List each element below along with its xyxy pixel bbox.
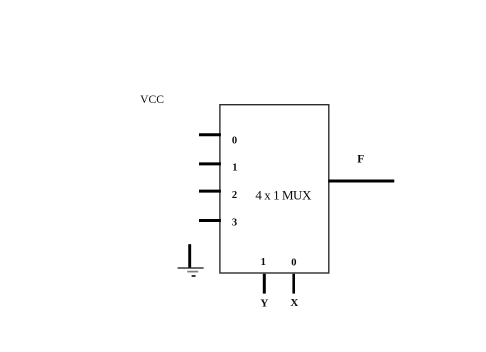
svg-text:X: X <box>290 297 298 309</box>
wire: data input 0 stub <box>199 133 221 136</box>
wire: data input 2 stub <box>199 190 221 193</box>
svg-text:1: 1 <box>232 163 237 174</box>
wire: data input 3 stub <box>199 219 221 222</box>
svg-text:Y: Y <box>260 298 268 310</box>
svg-text:2: 2 <box>232 190 237 201</box>
svg-text:VCC: VCC <box>140 93 164 106</box>
svg-text:3: 3 <box>232 218 237 229</box>
4x1 MUX body U1 <box>220 105 329 273</box>
wire: select input X stub <box>292 274 295 294</box>
svg-text:0: 0 <box>232 135 237 146</box>
svg-text:4 x 1 MUX: 4 x 1 MUX <box>255 187 312 202</box>
svg-text:0: 0 <box>291 257 296 268</box>
ground <box>178 244 204 276</box>
wire: data input 1 stub <box>199 162 221 165</box>
svg-text:1: 1 <box>261 257 266 268</box>
wire: select input Y stub <box>263 274 266 294</box>
svg-text:F: F <box>357 153 364 165</box>
wire: output F <box>328 180 394 183</box>
